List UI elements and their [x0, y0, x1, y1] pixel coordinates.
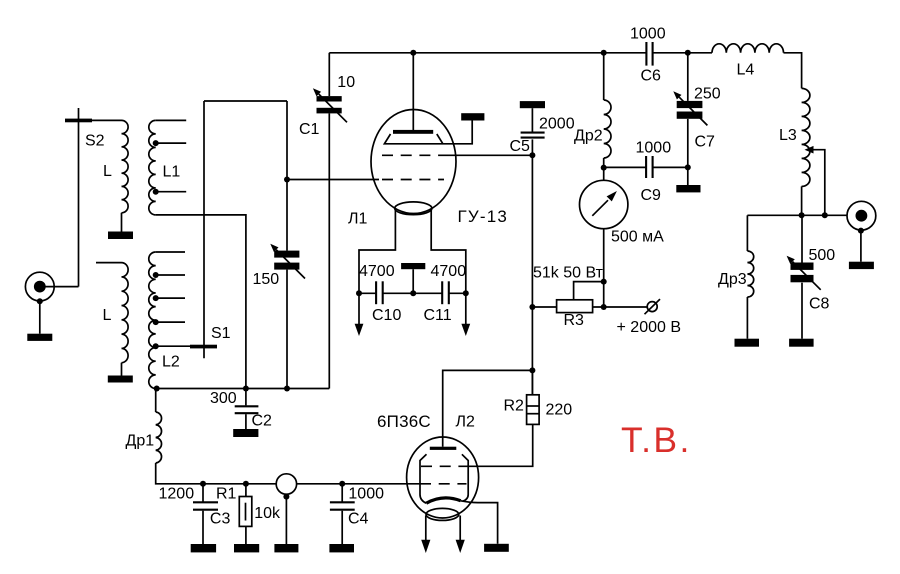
svg-text:1000: 1000: [636, 140, 672, 157]
inductor L1: [149, 120, 156, 214]
wire output bottom rail: [747, 214, 847, 216]
wire L1 top stub: [156, 119, 187, 121]
node rail / tap: [822, 212, 828, 218]
wire S2 to coil L: [92, 119, 122, 121]
svg-text:51k 50 Вт: 51k 50 Вт: [533, 264, 604, 281]
svg-text:Др1: Др1: [126, 433, 155, 450]
tube L1 cathode dome: [395, 202, 432, 215]
svg-text:1000: 1000: [348, 486, 384, 503]
node anode rail / Dr2: [601, 50, 607, 56]
node C5 junction: [529, 152, 535, 158]
chassis bar above L1 beam plates: [461, 113, 484, 120]
wire R3 to terminal: [593, 306, 648, 308]
svg-text:Т.В.: Т.В.: [621, 420, 692, 460]
svg-text:1000: 1000: [630, 26, 666, 43]
node L2 tap 4: [153, 343, 159, 349]
capacitor C4: [341, 484, 343, 502]
svg-text:R2: R2: [504, 398, 525, 415]
wire input to S2 riser: [44, 286, 79, 288]
svg-text:ГУ-13: ГУ-13: [458, 207, 509, 226]
node rail / L3: [799, 212, 805, 218]
svg-text:L1: L1: [163, 163, 181, 180]
tube L1 beam plates: [384, 121, 472, 144]
tube L1 control grid (dashed): [382, 179, 444, 181]
wire grid to tube L1: [287, 179, 379, 181]
svg-text:C6: C6: [641, 68, 662, 85]
inductor L (lower): [122, 263, 129, 363]
svg-text:C7: C7: [695, 133, 716, 150]
ground under C8: [789, 339, 814, 347]
wire R2 to screen grid: [467, 424, 533, 466]
svg-text:S2: S2: [85, 133, 105, 150]
svg-text:L: L: [103, 307, 112, 324]
tube L2 beam plates left: [420, 454, 427, 503]
node L2 tap 1: [153, 272, 159, 278]
ground under L2 cathode: [484, 544, 509, 552]
svg-text:R1: R1: [216, 485, 237, 502]
inductor L (upper): [122, 120, 129, 212]
svg-text:C11: C11: [424, 307, 452, 324]
svg-text:R3: R3: [564, 312, 585, 329]
tube L2 control grid (dashed): [420, 483, 467, 485]
svg-text:1200: 1200: [159, 485, 195, 502]
wire L2 tap 1: [156, 274, 185, 276]
node HV riser / R3: [529, 304, 535, 310]
svg-text:C1: C1: [299, 121, 320, 138]
svg-text:L4: L4: [737, 62, 755, 79]
svg-text:C2: C2: [252, 413, 273, 430]
ground under output connector: [849, 262, 874, 269]
tube L1 screen grid (dashed): [382, 154, 444, 156]
wire grid riser upper: [286, 101, 288, 251]
wire lower L stub: [96, 262, 122, 264]
node filament right: [463, 290, 469, 296]
node HV riser / L2 anode: [529, 367, 535, 373]
wire lower L tail: [121, 363, 123, 376]
capacitor C2: [245, 389, 247, 406]
wire L1 cathode leg right: [431, 210, 466, 294]
svg-text:C10: C10: [372, 307, 401, 324]
svg-text:S1: S1: [211, 325, 231, 342]
tube L2 anode: [430, 447, 457, 450]
capacitor C3: [202, 484, 204, 502]
ground under C7: [676, 185, 700, 192]
wire S2 riser: [78, 108, 80, 287]
inductor Dr1: [155, 389, 157, 413]
wire HV to R3: [532, 306, 556, 308]
wire grid riser lower: [286, 270, 288, 389]
svg-text:Др3: Др3: [718, 271, 747, 288]
svg-text:150: 150: [253, 271, 280, 288]
ground under C3: [191, 544, 216, 552]
wire meter to R3 line: [603, 229, 605, 307]
wire L1 screen to C5: [444, 154, 532, 156]
wire L2 tap 2: [156, 297, 185, 299]
svg-text:L3: L3: [779, 127, 797, 144]
ground under input connector: [27, 334, 52, 341]
switch S2: [65, 119, 92, 123]
tube L2 cathode: [426, 498, 460, 503]
switch S1: [190, 345, 217, 349]
node L1 tap 2: [153, 189, 159, 195]
capacitor C10: [375, 281, 377, 304]
svg-text:220: 220: [546, 401, 573, 418]
chassis bar above C5: [520, 101, 545, 108]
svg-text:10k: 10k: [254, 505, 281, 522]
node L2 tap 3: [153, 319, 159, 325]
wire C5 down main HV riser: [531, 139, 533, 394]
feedthrough connector mid: [276, 474, 296, 494]
node bus-C2: [243, 386, 249, 392]
wire L2 tap 4 to S1: [156, 345, 191, 347]
wire cathode to ground: [461, 501, 498, 544]
wire input shield stub: [39, 301, 41, 334]
node R3 tap junction: [601, 279, 607, 285]
svg-text:L: L: [103, 163, 112, 180]
wire S1 riser: [203, 101, 205, 358]
output connector XS2: [847, 201, 876, 230]
node C9 / C7: [685, 164, 691, 170]
variable capacitor C7: [687, 53, 689, 101]
ground under lower L: [108, 376, 133, 383]
tube L2 screen grid (dashed): [421, 465, 467, 467]
inductor L3: [802, 88, 810, 186]
svg-text:6П36С: 6П36С: [377, 412, 431, 431]
ground under C4: [329, 544, 354, 552]
tube L2 envelope: [407, 437, 479, 518]
capacitor C11: [441, 281, 443, 304]
wire filament bus: [359, 292, 376, 294]
svg-text:500 мА: 500 мА: [611, 229, 664, 246]
svg-text:250: 250: [694, 86, 721, 103]
wire L2 anode to HV: [443, 370, 533, 446]
wire L1 tap 2: [156, 191, 187, 193]
tube L1 envelope: [371, 110, 456, 214]
chassis bar filament center: [401, 263, 425, 269]
ground under upper L: [108, 232, 133, 240]
node filament left: [356, 290, 362, 296]
resistor R3: [557, 300, 593, 313]
node meter/R3 wire: [601, 304, 607, 310]
inductor L4: [712, 44, 783, 53]
svg-text:C8: C8: [809, 296, 830, 313]
capacitor C6: [645, 42, 647, 66]
node bus-150: [284, 386, 290, 392]
svg-text:+ 2000 В: + 2000 В: [617, 319, 682, 336]
ground under C2: [233, 429, 258, 437]
filament feed arrow right: [465, 293, 467, 324]
node bottom-C3: [200, 481, 206, 487]
tube L2 beam plates right: [462, 454, 468, 501]
tube L2 heater dome: [426, 508, 459, 520]
capacitor C9: [604, 166, 646, 168]
svg-text:L2: L2: [162, 354, 180, 371]
svg-text:C9: C9: [641, 187, 662, 204]
wire L2 top stub: [156, 251, 185, 253]
svg-text:C3: C3: [210, 511, 231, 528]
wire R3 tap: [574, 282, 604, 299]
wire L upper tail: [121, 213, 123, 232]
capacitor C5: [531, 108, 533, 131]
wire top jog S1 to grid riser: [204, 100, 287, 102]
tube L1 anode: [412, 53, 414, 130]
svg-text:C5: C5: [510, 138, 531, 155]
node bus-L2: [154, 386, 160, 392]
resistor R2: [531, 370, 533, 394]
variable capacitor 150: [274, 251, 299, 258]
wire L3 bottom: [801, 186, 803, 215]
heater lead left: [425, 516, 427, 541]
node L2 tap 2: [153, 295, 159, 301]
wire L1 tap 1: [156, 142, 187, 144]
wire top anode rail: [329, 52, 646, 54]
node anode rail / tube: [410, 50, 416, 56]
inductor Dr2: [603, 53, 605, 100]
svg-text:Л1: Л1: [348, 211, 368, 228]
wire Dr1 to bottom bus: [156, 463, 277, 484]
svg-text:4700: 4700: [359, 263, 395, 280]
node bottom-C4: [339, 481, 345, 487]
wire L1 bottom to C2 riser: [156, 215, 246, 389]
svg-text:300: 300: [210, 390, 237, 407]
svg-text:4700: 4700: [431, 263, 467, 280]
inductor Dr3: [746, 215, 748, 251]
node output shield: [858, 228, 864, 234]
wire L4 to L3: [784, 53, 802, 89]
heater lead right: [459, 516, 461, 541]
wire grid bus y388: [156, 388, 330, 390]
svg-text:2000: 2000: [539, 116, 575, 133]
filament feed arrow left: [358, 293, 360, 324]
svg-text:Л2: Л2: [456, 414, 476, 431]
node anode rail / C7: [685, 50, 691, 56]
svg-text:C4: C4: [348, 511, 369, 528]
meter PA1 500mA: [580, 180, 628, 228]
wire L2 tap 3: [156, 321, 185, 323]
inductor L2: [149, 252, 156, 388]
ground under Dr3: [735, 339, 760, 347]
terminal +2000V: [647, 302, 657, 312]
svg-text:10: 10: [337, 74, 355, 91]
node Dr2 bottom: [601, 165, 607, 171]
ground under feedthrough: [274, 544, 298, 552]
wire output shield stub: [860, 231, 862, 262]
svg-text:Др2: Др2: [574, 128, 603, 145]
wire bottom bus right part: [297, 483, 420, 485]
node grid junction: [284, 177, 290, 183]
L3 tap arrow: [812, 150, 825, 216]
input connector XS1: [25, 272, 54, 301]
wire L1 cathode leg left: [359, 210, 395, 294]
node input shield: [37, 298, 43, 304]
svg-text:500: 500: [809, 247, 836, 264]
variable capacitor C8: [801, 215, 803, 262]
node filament center: [410, 290, 416, 296]
node L1 tap 1: [153, 140, 159, 146]
node bottom-R1: [243, 481, 249, 487]
variable capacitor C1: [328, 53, 330, 96]
resistor R1: [245, 484, 247, 497]
ground under R1: [234, 544, 259, 552]
